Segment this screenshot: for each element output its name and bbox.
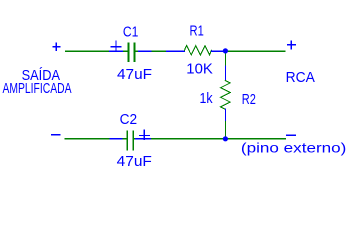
svg-text:1k: 1k (200, 90, 214, 107)
svg-text:AMPLIFICADA: AMPLIFICADA (3, 80, 72, 97)
svg-text:(pino externo): (pino externo) (241, 140, 347, 156)
svg-text:10K: 10K (186, 60, 213, 77)
svg-text:47uF: 47uF (117, 66, 152, 83)
svg-text:R2: R2 (242, 91, 256, 108)
svg-text:47uF: 47uF (117, 153, 152, 170)
svg-text:C1: C1 (123, 23, 138, 40)
svg-text:RCA: RCA (286, 69, 315, 86)
svg-text:R1: R1 (190, 23, 204, 40)
svg-text:C2: C2 (120, 111, 138, 128)
